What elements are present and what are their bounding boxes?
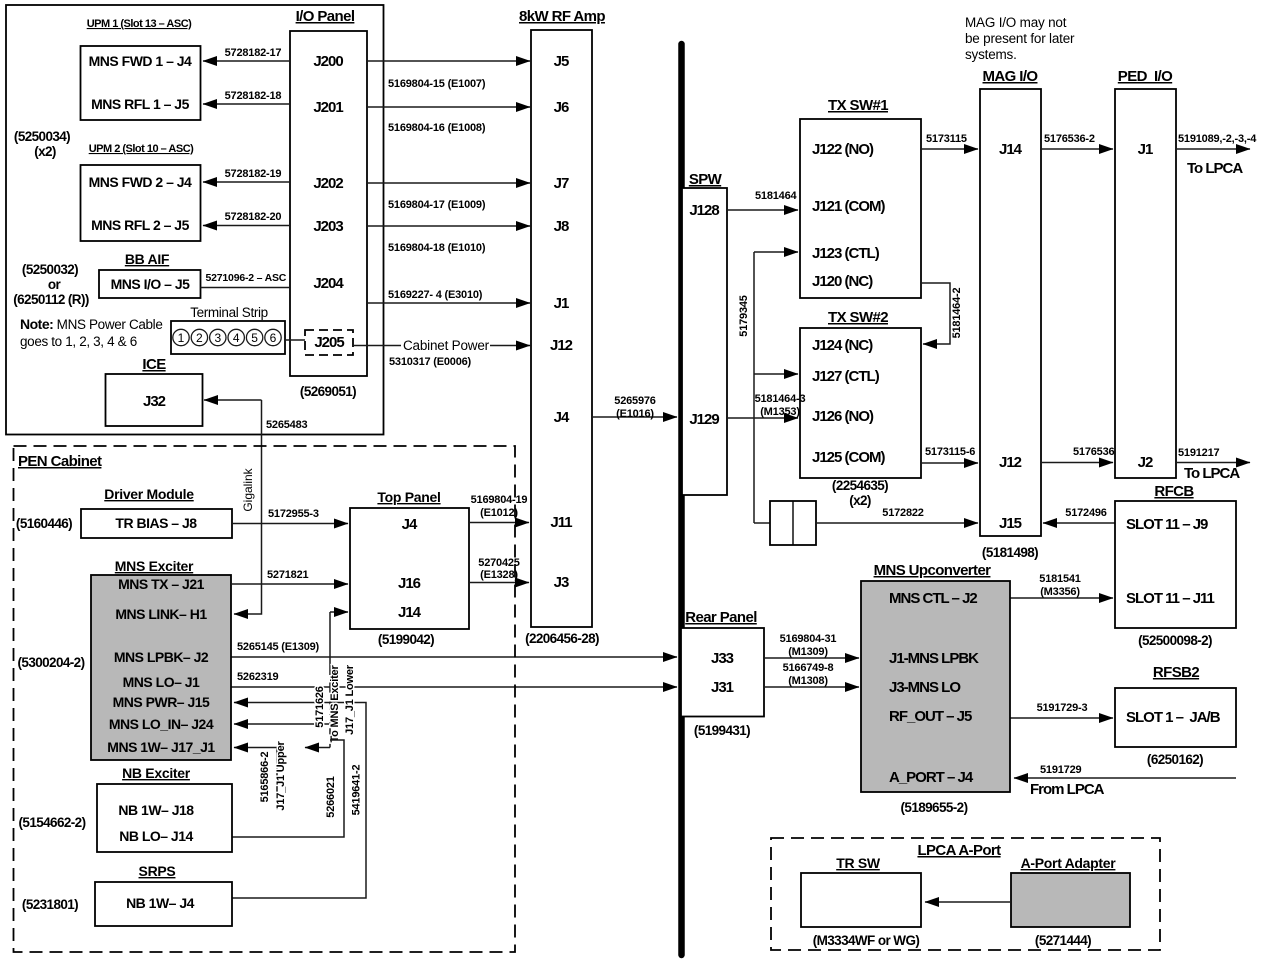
- svg-text:J14: J14: [398, 604, 422, 621]
- svg-text:To LPCA: To LPCA: [1184, 465, 1240, 482]
- value (5199431): [694, 723, 750, 738]
- value (5154662-2): [19, 815, 86, 830]
- svg-text:To MNS Exciter: To MNS Exciter: [329, 665, 341, 743]
- pin MNS PWR - J15: [113, 694, 210, 710]
- svg-text:(M1353): (M1353): [760, 406, 800, 418]
- node Driver Module title: [104, 486, 194, 502]
- svg-text:5271096-2 – ASC: 5271096-2 – ASC: [206, 272, 287, 284]
- pin J128: [689, 202, 719, 219]
- svg-text:MNS 1W– J17_J1: MNS 1W– J17_J1: [107, 739, 215, 755]
- box TX SW#2: [800, 328, 921, 478]
- wire J4 to J129 cable 5265976: [592, 395, 677, 420]
- value (2206456-28): [525, 631, 599, 646]
- svg-text:5179345: 5179345: [738, 295, 750, 337]
- svg-text:(x2): (x2): [849, 493, 871, 508]
- svg-text:RFCB: RFCB: [1154, 483, 1194, 500]
- pin ped J1: [1138, 141, 1153, 158]
- value (5231801): [22, 897, 78, 912]
- svg-text:(5250032): (5250032): [22, 262, 78, 277]
- box UPM1: [81, 46, 201, 120]
- wire TopPanel J4 to amp J11 cable 5169804-19: [469, 494, 529, 523]
- box Rear Panel: [681, 628, 764, 717]
- svg-text:J17_J1 Lower: J17_J1 Lower: [344, 664, 356, 735]
- svg-text:LPCA A-Port: LPCA A-Port: [917, 842, 1001, 859]
- wire to ICE J32 cable 5265483: [204, 400, 308, 431]
- enclosure PEN Cabinet dashed box: [14, 446, 516, 952]
- value (5189655-2): [901, 800, 968, 815]
- pin amp J12: [550, 337, 573, 354]
- svg-text:5265145 (E1309): 5265145 (E1309): [237, 641, 320, 653]
- pin J32: [143, 393, 166, 410]
- pin amp J8: [554, 218, 569, 235]
- svg-text:(5199042): (5199042): [378, 632, 434, 647]
- value (5250032) or (6250112 (R)): [13, 262, 89, 307]
- wire MNS TX to TopPanel J16 cable 5271821: [231, 569, 348, 584]
- svg-text:J16: J16: [398, 575, 421, 592]
- node BB AIF title: [125, 251, 170, 267]
- svg-text:MNS LO_IN– J24: MNS LO_IN– J24: [109, 716, 214, 732]
- node TX SW#1 title: [828, 97, 888, 114]
- pin J122 (NO): [812, 141, 874, 158]
- box I/O Panel: [290, 31, 367, 376]
- value (52500098-2): [1138, 633, 1212, 648]
- svg-text:(5189655-2): (5189655-2): [901, 800, 968, 815]
- svg-text:5271821: 5271821: [267, 569, 309, 581]
- value (5271444): [1035, 933, 1091, 948]
- node ICE title: [142, 356, 166, 373]
- svg-text:MNS FWD 2 – J4: MNS FWD 2 – J4: [89, 174, 192, 190]
- pin J124 (NC): [812, 337, 873, 354]
- svg-text:To LPCA: To LPCA: [1187, 160, 1243, 177]
- box TX SW#1: [800, 119, 921, 298]
- pin J202: [313, 175, 343, 192]
- pin MNS LO - J1: [123, 674, 200, 690]
- value (5269051): [300, 384, 356, 399]
- box Terminal Strip: [171, 321, 285, 354]
- pin J127 (CTL): [812, 368, 880, 385]
- svg-text:J14: J14: [999, 141, 1023, 158]
- svg-text:From LPCA: From LPCA: [1030, 781, 1105, 798]
- pin J1-MNS LPBK: [889, 650, 979, 667]
- pin SLOT 11 - J11: [1126, 590, 1215, 607]
- wire J201 to MNS RFL1 cable 5728182-18: [203, 90, 290, 104]
- wire J120 to J124 cable 5181464-2: [921, 283, 963, 344]
- svg-text:MNS CTL – J2: MNS CTL – J2: [889, 590, 977, 607]
- svg-text:J203: J203: [313, 218, 343, 235]
- enclosure LPCA A-Port dashed box: [771, 838, 1160, 950]
- svg-text:5181464-2: 5181464-2: [951, 288, 963, 339]
- svg-text:(M1309): (M1309): [788, 646, 828, 658]
- node 8kW RF Amp title: [519, 8, 605, 25]
- pin MNS TX - J21: [118, 576, 205, 592]
- svg-text:5169804-31: 5169804-31: [780, 633, 837, 645]
- svg-text:(5154662-2): (5154662-2): [19, 815, 86, 830]
- note MAG I/O may not be present: [965, 15, 1075, 62]
- box TR SW: [801, 873, 921, 927]
- divider thick bar: [678, 44, 685, 955]
- svg-text:(M3356): (M3356): [1040, 586, 1080, 598]
- wire Gigalink vertical: [234, 400, 262, 614]
- svg-text:J121 (COM): J121 (COM): [812, 198, 886, 215]
- svg-text:(6250162): (6250162): [1147, 752, 1203, 767]
- node MNS Upconverter title: [874, 562, 992, 579]
- connector block pair: [770, 501, 816, 545]
- box ICE: [106, 374, 203, 426]
- svg-text:(2254635): (2254635): [832, 478, 888, 493]
- svg-text:TX SW#2: TX SW#2: [828, 309, 888, 326]
- pin top J16: [398, 575, 421, 592]
- svg-text:or: or: [48, 277, 62, 292]
- node I/O Panel title: [296, 8, 355, 25]
- pin J203: [313, 218, 343, 235]
- wire J203 to J8 cable 5169804-18: [367, 226, 530, 254]
- pin mag J12: [999, 454, 1022, 471]
- svg-text:5173115: 5173115: [926, 133, 967, 145]
- wire J201 to J6 cable 5169804-16: [367, 107, 530, 134]
- svg-text:MAG I/O: MAG I/O: [983, 68, 1039, 85]
- wire J202 to J7 cable 5169804-17: [367, 183, 530, 211]
- svg-text:BB AIF: BB AIF: [125, 251, 170, 267]
- svg-text:J8: J8: [554, 218, 569, 235]
- svg-text:5310317 (E0006): 5310317 (E0006): [389, 356, 472, 368]
- wire MNS CTL to SLOT11-J11 cable 5181541: [1010, 573, 1113, 598]
- pin J120 (NC): [812, 273, 873, 290]
- svg-text:5270425: 5270425: [478, 557, 520, 569]
- wire J1 to LPCA cable 5191089: [1176, 133, 1257, 177]
- value (M3334WF or WG): [813, 933, 920, 948]
- wire J125 to J12 cable 5173115-6: [921, 446, 978, 463]
- wire TopPanel J16 to amp J3 cable 5270425: [469, 557, 529, 583]
- svg-text:5191089,-2,-3,-4: 5191089,-2,-3,-4: [1178, 133, 1257, 145]
- svg-text:be present for later: be present for later: [965, 31, 1075, 46]
- svg-text:5262319: 5262319: [237, 671, 279, 683]
- pin top J14: [398, 604, 422, 621]
- svg-text:J1-MNS LPBK: J1-MNS LPBK: [889, 650, 979, 667]
- svg-text:5176536-2: 5176536-2: [1044, 133, 1095, 145]
- wire NB 1W to MNS 1W cable 5165866-2: [234, 741, 287, 811]
- pin MNS LPBK - J2: [114, 649, 209, 665]
- svg-text:J7: J7: [554, 175, 569, 192]
- pin J33: [711, 650, 734, 667]
- wire connector to J15 cable 5172822: [816, 507, 978, 523]
- wire J33 to J1-MNS LPBK cable 5169804-31: [764, 633, 859, 658]
- svg-text:TR BIAS – J8: TR BIAS – J8: [115, 515, 197, 531]
- box A-Port Adapter: [1011, 873, 1130, 927]
- pin MNS FWD 1 - J4: [89, 53, 192, 69]
- svg-text:5172955-3: 5172955-3: [268, 508, 319, 520]
- svg-text:NB Exciter: NB Exciter: [122, 765, 191, 781]
- wire LPCA to A_PORT cable 5191729: [1014, 764, 1236, 798]
- svg-text:J129: J129: [689, 411, 719, 428]
- pin SLOT 1 - JA/B: [1126, 709, 1221, 726]
- node NB Exciter title: [122, 765, 191, 781]
- svg-text:(5181498): (5181498): [982, 545, 1038, 560]
- value (6250162): [1147, 752, 1203, 767]
- pin NB LO - J14: [119, 828, 193, 844]
- svg-text:J3: J3: [554, 574, 569, 591]
- pin A_PORT - J4: [889, 769, 974, 786]
- node TR SW title: [836, 855, 881, 871]
- svg-text:PEN Cabinet: PEN Cabinet: [18, 453, 102, 470]
- pin J129: [689, 411, 719, 428]
- svg-text:J3-MNS LO: J3-MNS LO: [889, 679, 961, 696]
- svg-text:(2206456-28): (2206456-28): [525, 631, 599, 646]
- pin amp J5: [554, 53, 569, 70]
- svg-text:J1: J1: [554, 295, 569, 312]
- pin J204: [313, 275, 344, 292]
- svg-text:J1: J1: [1138, 141, 1153, 158]
- svg-text:J4: J4: [554, 409, 570, 426]
- box MNS Exciter: [91, 575, 231, 760]
- svg-text:5172496: 5172496: [1065, 507, 1107, 519]
- wire BB AIF to J204 cable 5271096-2-ASC: [201, 272, 291, 288]
- wire J2 to LPCA cable 5191217: [1176, 447, 1250, 482]
- box BB AIF: [99, 270, 201, 298]
- svg-text:A-Port Adapter: A-Port Adapter: [1021, 855, 1117, 871]
- node LPCA A-Port title: [917, 842, 1001, 859]
- pin amp J3: [554, 574, 569, 591]
- svg-text:MNS TX – J21: MNS TX – J21: [118, 576, 205, 592]
- svg-text:J11: J11: [550, 514, 572, 531]
- svg-text:TR SW: TR SW: [836, 855, 881, 871]
- svg-text:5265483: 5265483: [266, 419, 308, 431]
- svg-text:MNS LPBK– J2: MNS LPBK– J2: [114, 649, 209, 665]
- svg-text:J204: J204: [313, 275, 344, 292]
- box SRPS: [95, 882, 232, 926]
- box RFCB: [1115, 501, 1236, 628]
- value (5300204-2): [18, 655, 85, 670]
- svg-text:NB 1W– J4: NB 1W– J4: [126, 895, 195, 911]
- pin J123 (CTL): [812, 245, 880, 262]
- box MNS Upconverter: [861, 581, 1010, 792]
- svg-text:(E1012): (E1012): [480, 507, 518, 519]
- svg-text:J32: J32: [143, 393, 166, 410]
- pin J15: [999, 515, 1022, 532]
- value (5181498): [982, 545, 1038, 560]
- svg-text:5728182-18: 5728182-18: [225, 90, 282, 102]
- svg-text:J202: J202: [313, 175, 343, 192]
- node MNS Exciter title: [115, 558, 194, 574]
- svg-text:NB LO– J14: NB LO– J14: [119, 828, 193, 844]
- box UPM2: [81, 165, 201, 241]
- wire J129 to J126 cable 5181464-3: [727, 393, 805, 418]
- pin MNS I/O - J5: [111, 276, 191, 292]
- svg-text:J126 (NO): J126 (NO): [812, 408, 874, 425]
- svg-text:(x2): (x2): [34, 144, 56, 159]
- svg-text:(E1016): (E1016): [616, 408, 654, 420]
- svg-text:systems.: systems.: [965, 47, 1017, 62]
- pin top J4: [402, 516, 418, 533]
- svg-text:Terminal Strip: Terminal Strip: [190, 305, 268, 320]
- svg-text:J5: J5: [554, 53, 569, 70]
- wire trunk 5179345: [738, 252, 798, 523]
- svg-text:5265976: 5265976: [614, 395, 656, 407]
- box Driver Module: [81, 509, 232, 538]
- wire MNS LO to J31 cable 5262319: [231, 671, 677, 687]
- pin MNS RFL 1 - J5: [91, 96, 189, 112]
- svg-text:5419641-2: 5419641-2: [351, 765, 363, 816]
- svg-text:Cabinet Power: Cabinet Power: [403, 338, 490, 353]
- value (5160446): [16, 516, 72, 531]
- node RFSB2 title: [1153, 664, 1199, 681]
- svg-text:(E1328): (E1328): [480, 569, 518, 581]
- node A-Port Adapter title: [1021, 855, 1117, 871]
- wire NB LO cable 5266021: [232, 740, 344, 837]
- box MAG I/O: [980, 89, 1041, 536]
- svg-text:MNS LO– J1: MNS LO– J1: [123, 674, 200, 690]
- node Terminal Strip title: [190, 305, 268, 320]
- pin RF_OUT - J5: [889, 708, 972, 725]
- pin J121 (COM): [812, 198, 886, 215]
- svg-text:5169804-19: 5169804-19: [471, 494, 528, 506]
- svg-text:MNS RFL 1 – J5: MNS RFL 1 – J5: [91, 96, 189, 112]
- node TX SW#2 title: [828, 309, 888, 326]
- pin J31: [711, 679, 734, 696]
- box RFSB2: [1115, 688, 1236, 747]
- svg-text:goes to 1, 2, 3, 4 & 6: goes to 1, 2, 3, 4 & 6: [20, 334, 137, 349]
- svg-text:PED I/O: PED I/O: [1118, 68, 1173, 85]
- svg-text:(5271444): (5271444): [1035, 933, 1091, 948]
- wire J128 to J121 cable 5181464: [727, 190, 798, 210]
- pin J201: [313, 99, 343, 116]
- svg-text:J17_J1 Upper: J17_J1 Upper: [275, 741, 287, 811]
- svg-text:TX SW#1: TX SW#1: [828, 97, 888, 114]
- svg-text:J128: J128: [689, 202, 719, 219]
- wire J202 to MNS FWD2 cable 5728182-19: [203, 168, 290, 182]
- svg-text:J120 (NC): J120 (NC): [812, 273, 873, 290]
- note MNS power cable: [20, 316, 162, 349]
- node SPW title: [689, 171, 723, 188]
- wire terminal strip to J205: [285, 339, 305, 341]
- terminal strip circles 1-6: [173, 329, 281, 345]
- svg-text:UPM 1 (Slot 13 – ASC): UPM 1 (Slot 13 – ASC): [87, 18, 192, 30]
- pin amp J1: [554, 295, 569, 312]
- svg-text:MNS Upconverter: MNS Upconverter: [874, 562, 992, 579]
- pin amp J7: [554, 175, 569, 192]
- wire to MNS LO_IN cable 5171626 label: [234, 686, 330, 728]
- svg-text:J201: J201: [313, 99, 343, 116]
- svg-text:5169227- 4 (E3010): 5169227- 4 (E3010): [388, 289, 483, 301]
- svg-text:(5231801): (5231801): [22, 897, 78, 912]
- svg-text:J2: J2: [1138, 454, 1153, 471]
- svg-text:Top Panel: Top Panel: [377, 489, 440, 505]
- svg-text:5191729-3: 5191729-3: [1037, 702, 1088, 714]
- svg-text:(5300204-2): (5300204-2): [18, 655, 85, 670]
- svg-text:A_PORT – J4: A_PORT – J4: [889, 769, 974, 786]
- box PED I/O: [1115, 89, 1176, 478]
- node UPM2 title: [89, 143, 194, 155]
- wire TopPanel J14 to J17_J1 Lower: [305, 612, 356, 748]
- svg-text:J124 (NC): J124 (NC): [812, 337, 873, 354]
- wire MNS LPBK to J33 cable 5265145: [231, 641, 677, 657]
- node Rear Panel title: [685, 609, 757, 626]
- value (5199042): [378, 632, 434, 647]
- svg-text:J15: J15: [999, 515, 1022, 532]
- svg-text:1: 1: [178, 331, 185, 345]
- svg-text:5165866-2: 5165866-2: [259, 752, 271, 803]
- wire J31 to J3-MNS LO cable 5166749-8: [764, 662, 859, 687]
- svg-text:5191217: 5191217: [1178, 447, 1220, 459]
- svg-text:Rear Panel: Rear Panel: [685, 609, 757, 626]
- svg-text:2: 2: [196, 331, 203, 345]
- svg-text:(5160446): (5160446): [16, 516, 72, 531]
- svg-text:5176536: 5176536: [1073, 446, 1115, 458]
- svg-text:5181541: 5181541: [1039, 573, 1081, 585]
- svg-text:5: 5: [251, 331, 258, 345]
- svg-text:J6: J6: [554, 99, 569, 116]
- svg-text:RFSB2: RFSB2: [1153, 664, 1199, 681]
- svg-text:(5250034): (5250034): [14, 129, 70, 144]
- pin MNS LO_IN - J24: [109, 716, 214, 732]
- wire J122 to J14 cable 5173115: [921, 133, 978, 149]
- pin J126 (NO): [812, 408, 874, 425]
- svg-text:MNS RFL 2 – J5: MNS RFL 2 – J5: [91, 217, 189, 233]
- pin MNS RFL 2 - J5: [91, 217, 189, 233]
- svg-text:MNS FWD 1 – J4: MNS FWD 1 – J4: [89, 53, 192, 69]
- pin J14: [999, 141, 1023, 158]
- svg-text:5172822: 5172822: [882, 507, 924, 519]
- wire J203 to MNS RFL2 cable 5728182-20: [203, 211, 290, 226]
- svg-text:J205: J205: [314, 334, 344, 351]
- svg-text:8kW RF Amp: 8kW RF Amp: [519, 8, 605, 25]
- svg-text:J200: J200: [313, 53, 343, 70]
- pin MNS LINK - H1: [115, 606, 207, 622]
- node MAG I/O title: [983, 68, 1039, 85]
- pin ped J2: [1138, 454, 1153, 471]
- svg-text:5728182-17: 5728182-17: [225, 47, 282, 59]
- pin J200: [313, 53, 343, 70]
- svg-text:(6250112 (R)): (6250112 (R)): [13, 292, 89, 307]
- svg-text:J127 (CTL): J127 (CTL): [812, 368, 880, 385]
- pin MNS FWD 2 - J4: [89, 174, 192, 190]
- svg-text:MNS PWR– J15: MNS PWR– J15: [113, 694, 210, 710]
- enclosure UPM/BB-AIF/ICE outer box: [6, 5, 384, 435]
- pin MNS 1W - J17_J1: [107, 739, 215, 755]
- svg-text:5169804-15 (E1007): 5169804-15 (E1007): [388, 78, 486, 90]
- svg-text:J4: J4: [402, 516, 418, 533]
- svg-text:5169804-17 (E1009): 5169804-17 (E1009): [388, 199, 486, 211]
- pin amp J11: [550, 514, 572, 531]
- svg-text:MNS Exciter: MNS Exciter: [115, 558, 194, 574]
- box SPW: [682, 188, 727, 495]
- svg-text:MNS LINK– H1: MNS LINK– H1: [115, 606, 207, 622]
- svg-text:ICE: ICE: [142, 356, 166, 373]
- pin J3-MNS LO: [889, 679, 961, 696]
- svg-text:MAG I/O may not: MAG I/O may not: [965, 15, 1067, 30]
- pin NB 1W - J4: [126, 895, 195, 911]
- node SRPS title: [139, 863, 176, 879]
- box Top Panel: [350, 508, 469, 629]
- svg-text:I/O Panel: I/O Panel: [296, 8, 355, 25]
- box NB Exciter: [97, 784, 232, 852]
- svg-text:UPM 2 (Slot 10 – ASC): UPM 2 (Slot 10 – ASC): [89, 143, 194, 155]
- node RFCB title: [1154, 483, 1194, 500]
- svg-text:5169804-18 (E1010): 5169804-18 (E1010): [388, 242, 486, 254]
- svg-text:Gigalink: Gigalink: [241, 467, 255, 511]
- svg-text:(M3334WF or WG): (M3334WF or WG): [813, 933, 920, 948]
- wire J14 to PED J1 cable 5176536-2: [1041, 133, 1113, 149]
- pin amp J4: [554, 409, 570, 426]
- svg-text:J12: J12: [550, 337, 573, 354]
- connector J205 dashed box: [305, 330, 353, 355]
- wire TR BIAS to TopPanel J4 cable 5172955-3: [232, 508, 348, 524]
- pin amp J6: [554, 99, 569, 116]
- pin MNS CTL - J2: [889, 590, 977, 607]
- svg-text:Note: MNS Power Cable: Note: MNS Power Cable: [20, 316, 162, 332]
- svg-text:5169804-16 (E1008): 5169804-16 (E1008): [388, 122, 486, 134]
- pin J125 (COM): [812, 449, 886, 466]
- node UPM1 title: [87, 18, 192, 30]
